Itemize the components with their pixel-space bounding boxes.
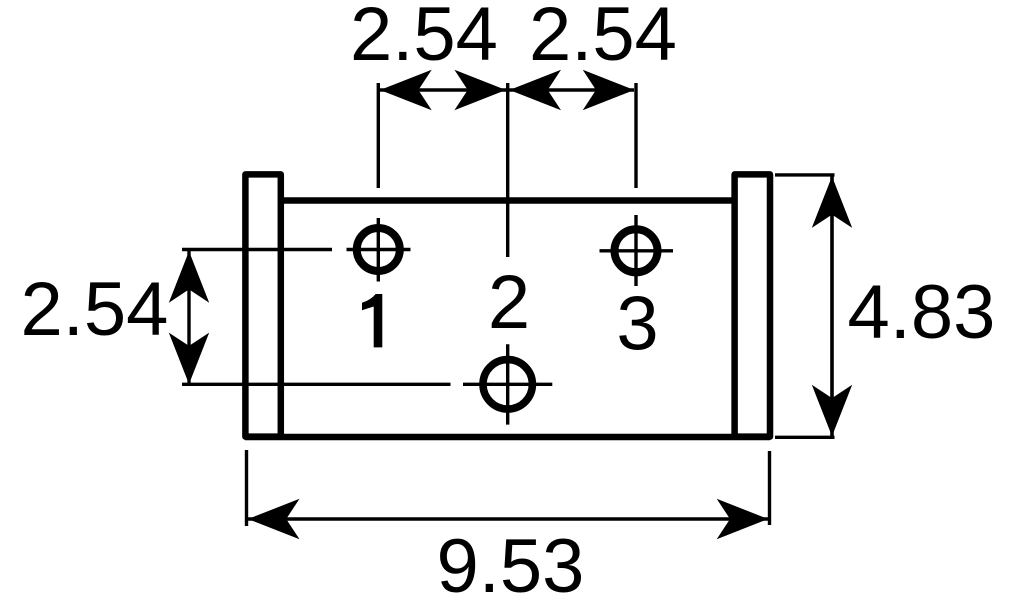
body outline: bottom edge <box>245 434 770 440</box>
left dimension arrow down <box>169 333 209 385</box>
extension line right top <box>775 173 835 176</box>
body outline: right mounting tab <box>735 174 770 436</box>
svg-text:3: 3 <box>616 282 658 367</box>
right dimension arrow up <box>812 176 852 228</box>
svg-text:2.54: 2.54 <box>21 267 169 352</box>
pin 2 hole <box>463 344 552 424</box>
body outline: left mounting tab <box>245 174 280 436</box>
top dimension line <box>380 88 634 91</box>
extension line at pin3 x <box>634 83 637 188</box>
extension line at pin2 row <box>182 383 451 386</box>
right dimension line <box>830 176 834 436</box>
bottom dimension line <box>248 517 768 521</box>
left dimension arrow up <box>169 251 209 303</box>
top left span arrow left <box>380 70 432 110</box>
pin 3 hole <box>600 215 674 286</box>
svg-text:2.54: 2.54 <box>350 0 498 77</box>
top left span arrow right <box>454 70 506 110</box>
pin 1 hole <box>347 218 411 282</box>
extension line at pin1 row <box>182 248 332 251</box>
top right span arrow left <box>510 70 562 110</box>
top right span arrow right <box>583 70 635 110</box>
extension line right bottom <box>775 436 835 439</box>
svg-text:9.53: 9.53 <box>437 524 585 609</box>
bottom dimension arrow right <box>717 499 769 539</box>
extension line bottom left <box>245 450 248 526</box>
svg-text:4.83: 4.83 <box>848 270 996 355</box>
right dimension arrow down <box>812 385 852 437</box>
left dimension line <box>187 251 190 384</box>
pin label 1 <box>362 294 382 347</box>
svg-text:2: 2 <box>488 260 530 345</box>
extension line at center x <box>506 83 509 257</box>
body outline: top edge <box>280 197 735 203</box>
extension line bottom right <box>768 451 771 525</box>
extension line at pin1 x <box>377 83 380 188</box>
bottom dimension arrow left <box>248 499 300 539</box>
svg-text:2.54: 2.54 <box>529 0 677 77</box>
